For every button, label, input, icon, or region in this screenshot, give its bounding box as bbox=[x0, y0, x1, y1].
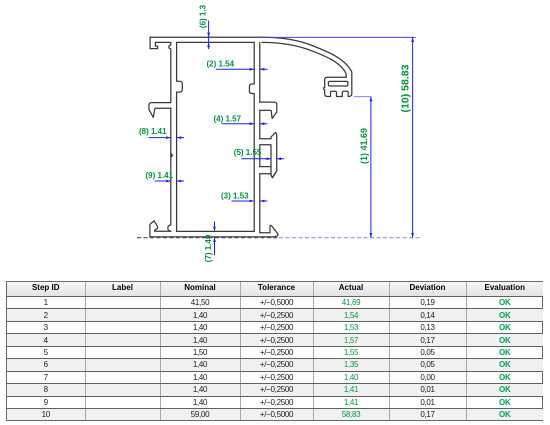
arrowheads dim 4 bbox=[250, 122, 255, 125]
central wall left line lower bbox=[253, 94, 255, 232]
dim 10 extension line bbox=[262, 36, 416, 38]
left flange inner bbox=[153, 108, 171, 117]
central wall right line bbox=[259, 42, 261, 102]
arch inner curve bbox=[262, 42, 346, 77]
box lower arm bottom bbox=[260, 173, 271, 175]
left wall nub bbox=[177, 81, 183, 92]
dashed centerline blue part bbox=[279, 237, 420, 239]
base bottom line bbox=[150, 236, 275, 238]
box upper arm and fin top tip bbox=[260, 132, 277, 177]
arrowheads dim 2 bbox=[250, 68, 255, 71]
arrowheads dim 8 bbox=[166, 136, 171, 139]
dim 1 vertical bbox=[370, 97, 372, 238]
arrowheads dim 3 bbox=[250, 200, 255, 203]
arrowheads dim 6 bbox=[207, 33, 210, 38]
arrowheads dim 7 bbox=[213, 227, 216, 232]
svg-text:(6) 1.3: (6) 1.3 bbox=[199, 4, 208, 28]
central wall right line lower bbox=[259, 174, 261, 233]
bottom-left foot curl bbox=[154, 221, 171, 231]
central wall left line bbox=[253, 42, 255, 84]
profile drawing bbox=[0, 0, 550, 280]
dim 4 line bbox=[222, 123, 268, 125]
svg-text:(8) 1.41: (8) 1.41 bbox=[139, 127, 167, 136]
arrowheads dim 1 bbox=[370, 97, 373, 102]
tick mark on left wall bbox=[171, 153, 173, 157]
svg-text:(7) 1.40: (7) 1.40 bbox=[204, 234, 213, 262]
dim 2 line bbox=[216, 68, 268, 70]
svg-text:(9) 1.41: (9) 1.41 bbox=[146, 171, 174, 180]
central wall right line mid bbox=[259, 110, 261, 138]
dashed centerline dark part bbox=[137, 237, 279, 239]
svg-text:(10) 58.83: (10) 58.83 bbox=[400, 64, 412, 112]
dim 10 vertical bbox=[412, 37, 414, 237]
svg-text:(5) 1.55: (5) 1.55 bbox=[234, 148, 262, 157]
dim 3 line bbox=[232, 200, 268, 202]
fin lower tip inner bbox=[272, 171, 276, 178]
base top line cavity bbox=[177, 230, 255, 232]
measurement results table bbox=[6, 281, 543, 421]
central wall left nub bbox=[249, 84, 254, 94]
left wall right line bbox=[176, 42, 178, 81]
dim 9 line bbox=[155, 180, 185, 182]
dim 8 line bbox=[149, 137, 185, 139]
upper finger with hook bbox=[260, 102, 277, 118]
dim 7 leader bbox=[214, 222, 216, 256]
bottom-left foot outer bbox=[150, 221, 154, 237]
clip outline bbox=[324, 77, 349, 96]
top wall outer line bbox=[150, 36, 262, 38]
dim 6 leader bbox=[208, 21, 210, 50]
dim 5 line bbox=[241, 158, 284, 160]
svg-text:(1) 41.69: (1) 41.69 bbox=[359, 128, 369, 164]
dim 1 leader horizontal bbox=[354, 96, 371, 98]
arrowheads dim 5 bbox=[266, 157, 271, 160]
arch outer curve bbox=[262, 37, 352, 96]
arrowheads dim 9 bbox=[166, 180, 171, 183]
svg-text:(2) 1.54: (2) 1.54 bbox=[207, 60, 235, 69]
bottom-center foot bbox=[260, 225, 278, 236]
top-left screw channel bbox=[150, 37, 171, 102]
svg-text:(3) 1.53: (3) 1.53 bbox=[221, 192, 249, 201]
arrowheads dim 10 bbox=[411, 37, 414, 42]
left wall right line lower bbox=[176, 92, 178, 231]
top wall inner line left cavity bbox=[177, 41, 255, 43]
clip interior slot bbox=[328, 81, 348, 86]
box interior lines bbox=[260, 145, 271, 167]
svg-text:(4) 1.57: (4) 1.57 bbox=[214, 114, 242, 123]
left wall left line lower bbox=[168, 108, 171, 231]
left flange outer bbox=[149, 103, 171, 118]
